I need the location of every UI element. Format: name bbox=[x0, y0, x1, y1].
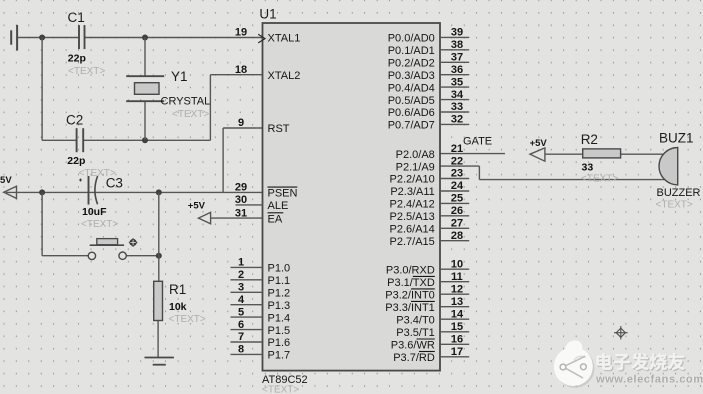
node bbox=[39, 35, 45, 41]
wire bbox=[42, 139, 76, 141]
svg-text:<TEXT>: <TEXT> bbox=[172, 109, 209, 120]
svg-text:P3.5/T1: P3.5/T1 bbox=[396, 327, 435, 339]
svg-text:39: 39 bbox=[451, 27, 463, 39]
svg-text:<TEXT>: <TEXT> bbox=[581, 174, 618, 185]
button toggle marker bbox=[129, 238, 137, 246]
wire bbox=[478, 166, 480, 180]
svg-text:R2: R2 bbox=[581, 132, 598, 147]
pin 12 P3.2/INT0 bbox=[385, 283, 469, 301]
node bbox=[156, 189, 162, 195]
pin 9 RST bbox=[238, 117, 290, 135]
pin 23 P2.2/A10 bbox=[390, 168, 470, 186]
svg-text:P0.6/AD6: P0.6/AD6 bbox=[388, 107, 435, 119]
pin 29 PSEN bbox=[235, 182, 298, 200]
wire pin22 bbox=[440, 165, 479, 167]
svg-text:P1.7: P1.7 bbox=[268, 350, 291, 362]
pin 18 XTAL2 bbox=[235, 64, 300, 82]
svg-text:P3.7/RD: P3.7/RD bbox=[393, 352, 435, 364]
wire bbox=[222, 128, 224, 192]
svg-text:C1: C1 bbox=[68, 10, 85, 25]
pin 28 P2.7/A15 bbox=[390, 230, 470, 248]
svg-text:6: 6 bbox=[238, 319, 244, 331]
wire bbox=[144, 101, 146, 140]
power +5V right bbox=[530, 148, 545, 161]
svg-text:P3.3/INT1: P3.3/INT1 bbox=[385, 302, 435, 314]
svg-text:11: 11 bbox=[451, 271, 463, 283]
pin 13 P3.3/INT1 bbox=[385, 296, 469, 314]
svg-text:+5V: +5V bbox=[188, 201, 206, 212]
wire bbox=[210, 74, 262, 76]
pin 27 P2.6/A14 bbox=[390, 218, 470, 236]
pin 38 P0.1/AD1 bbox=[388, 39, 469, 57]
svg-text:32: 32 bbox=[451, 114, 463, 126]
svg-text:P3.2/INT0: P3.2/INT0 bbox=[385, 289, 435, 301]
crystal Y1 bbox=[126, 76, 164, 101]
svg-text:12: 12 bbox=[451, 283, 463, 295]
svg-text:EA: EA bbox=[268, 213, 283, 225]
svg-text:P2.2/A10: P2.2/A10 bbox=[390, 174, 435, 186]
svg-text:10uF: 10uF bbox=[82, 206, 107, 218]
svg-text:P3.6/WR: P3.6/WR bbox=[391, 340, 435, 352]
svg-text:14: 14 bbox=[451, 308, 464, 320]
svg-text:15: 15 bbox=[451, 321, 463, 333]
svg-text:BUZZER: BUZZER bbox=[657, 187, 701, 199]
svg-text:<TEXT>: <TEXT> bbox=[169, 314, 206, 325]
node bbox=[142, 137, 148, 143]
pin 14 P3.4/T0 bbox=[396, 308, 469, 326]
wire bbox=[41, 192, 43, 255]
watermark text 电子发烧友 bbox=[598, 354, 686, 371]
svg-text:22p: 22p bbox=[67, 155, 85, 167]
pin 35 P0.4/AD4 bbox=[388, 76, 469, 94]
pin 25 P2.4/A12 bbox=[390, 193, 470, 211]
svg-text:22p: 22p bbox=[68, 53, 86, 65]
svg-text:23: 23 bbox=[451, 168, 463, 180]
svg-text:13: 13 bbox=[451, 296, 463, 308]
wire bbox=[126, 255, 159, 257]
svg-text:33: 33 bbox=[582, 162, 594, 174]
wire bbox=[223, 127, 262, 129]
pin 2 P1.1 bbox=[231, 269, 291, 287]
pin 36 P0.3/AD3 bbox=[388, 64, 469, 82]
pin 26 P2.5/A13 bbox=[390, 205, 470, 223]
svg-text:P0.7/AD7: P0.7/AD7 bbox=[388, 120, 435, 132]
svg-text:P1.5: P1.5 bbox=[268, 325, 291, 337]
svg-text:GATE: GATE bbox=[463, 136, 492, 148]
svg-text:33: 33 bbox=[451, 101, 463, 113]
svg-text:P0.4/AD4: P0.4/AD4 bbox=[388, 82, 435, 94]
svg-text:PSEN: PSEN bbox=[268, 188, 298, 200]
svg-text:<TEXT>: <TEXT> bbox=[656, 200, 693, 211]
pin 33 P0.6/AD6 bbox=[388, 101, 469, 119]
svg-text:7: 7 bbox=[238, 331, 244, 343]
wire bbox=[209, 75, 211, 141]
svg-text:P3.0/RXD: P3.0/RXD bbox=[386, 264, 435, 276]
svg-text:5: 5 bbox=[238, 306, 244, 318]
pin 10 P3.0/RXD bbox=[386, 258, 469, 276]
power +5V mid bbox=[199, 212, 211, 223]
resistor R1 bbox=[154, 281, 163, 320]
svg-text:P2.3/A11: P2.3/A11 bbox=[390, 186, 434, 198]
pin 1 P1.0 bbox=[231, 257, 291, 275]
svg-text:25: 25 bbox=[451, 193, 463, 205]
svg-text:P3.1/TXD: P3.1/TXD bbox=[387, 277, 435, 289]
svg-text:4: 4 bbox=[238, 294, 245, 306]
pin 8 P1.7 bbox=[231, 344, 291, 362]
svg-text:P0.5/AD5: P0.5/AD5 bbox=[388, 95, 435, 107]
pin 16 P3.6/WR bbox=[391, 334, 469, 352]
svg-text:P2.6/A14: P2.6/A14 bbox=[390, 224, 435, 236]
svg-text:35: 35 bbox=[451, 76, 463, 88]
svg-text:10k: 10k bbox=[169, 301, 187, 313]
pin 32 P0.7/AD7 bbox=[388, 114, 469, 132]
ground bbox=[145, 358, 174, 365]
svg-text:34: 34 bbox=[451, 89, 464, 101]
svg-text:RST: RST bbox=[268, 123, 290, 135]
pin 22 P2.1/A9 bbox=[396, 155, 463, 173]
svg-text:+5V: +5V bbox=[0, 175, 12, 186]
wire buzzer bottom bbox=[479, 179, 666, 181]
svg-text:1: 1 bbox=[238, 257, 244, 269]
svg-text:10: 10 bbox=[451, 258, 463, 270]
svg-text:19: 19 bbox=[235, 27, 247, 39]
wire bbox=[17, 37, 78, 39]
pin 11 P3.1/TXD bbox=[387, 271, 469, 289]
op IC U1 AT89C52 bbox=[263, 23, 441, 371]
svg-text:U1: U1 bbox=[259, 7, 276, 22]
pin 31 EA bbox=[235, 207, 283, 225]
svg-text:P2.0/A8: P2.0/A8 bbox=[396, 149, 435, 161]
pin 15 P3.5/T1 bbox=[396, 321, 469, 339]
svg-text:38: 38 bbox=[451, 39, 463, 51]
pin 4 P1.3 bbox=[231, 294, 291, 312]
pin 19 XTAL1 bbox=[235, 27, 300, 45]
ground bbox=[11, 25, 17, 51]
svg-text:P2.7/A15: P2.7/A15 bbox=[390, 236, 435, 248]
svg-text:21: 21 bbox=[451, 143, 463, 155]
svg-text:P1.6: P1.6 bbox=[268, 337, 291, 349]
svg-text:Y1: Y1 bbox=[171, 69, 188, 84]
capacitor C3 bbox=[79, 176, 98, 205]
pin 21 P2.0/A8 bbox=[396, 143, 463, 161]
svg-text:CRYSTAL: CRYSTAL bbox=[161, 96, 211, 108]
wire bbox=[144, 38, 146, 77]
svg-text:8: 8 bbox=[238, 344, 244, 356]
svg-text:P1.0: P1.0 bbox=[268, 263, 291, 275]
pin 3 P1.2 bbox=[231, 282, 291, 300]
pin 17 P3.7/RD bbox=[393, 346, 469, 364]
pin 5 P1.4 bbox=[231, 306, 291, 324]
svg-text:ALE: ALE bbox=[268, 200, 289, 212]
svg-text:26: 26 bbox=[451, 205, 463, 217]
svg-text:P2.1/A9: P2.1/A9 bbox=[396, 161, 435, 173]
svg-text:18: 18 bbox=[235, 64, 247, 76]
svg-text:37: 37 bbox=[451, 52, 463, 64]
svg-text:9: 9 bbox=[238, 117, 244, 129]
capacitor C2 bbox=[77, 128, 84, 152]
wire bbox=[158, 192, 160, 281]
svg-text:27: 27 bbox=[451, 218, 463, 230]
svg-text:P0.3/AD3: P0.3/AD3 bbox=[388, 70, 435, 82]
svg-text:R1: R1 bbox=[169, 282, 186, 297]
capacitor C1 bbox=[79, 25, 85, 49]
svg-text:P3.4/T0: P3.4/T0 bbox=[396, 314, 435, 326]
node bbox=[39, 189, 45, 195]
svg-text:P1.2: P1.2 bbox=[268, 288, 291, 300]
origin marker bbox=[614, 326, 628, 339]
node bbox=[142, 35, 148, 41]
svg-text:P0.1/AD1: P0.1/AD1 bbox=[388, 45, 435, 57]
svg-text:P1.1: P1.1 bbox=[268, 275, 291, 287]
power +5V left bbox=[4, 186, 17, 198]
svg-text:30: 30 bbox=[235, 194, 247, 206]
svg-text:BUZ1: BUZ1 bbox=[659, 131, 694, 146]
wire EA to +5V bbox=[211, 217, 263, 219]
clock chevron XTAL1 bbox=[258, 34, 265, 43]
svg-text:<TEXT>: <TEXT> bbox=[262, 385, 299, 394]
svg-text:+5V: +5V bbox=[530, 138, 548, 149]
svg-text:29: 29 bbox=[235, 182, 247, 194]
node bbox=[156, 253, 162, 259]
pin 7 P1.6 bbox=[231, 331, 291, 349]
wire R2 to buzzer bbox=[621, 153, 666, 155]
wire +5V rail bbox=[6, 191, 263, 193]
pin 30 ALE bbox=[235, 194, 288, 212]
svg-text:22: 22 bbox=[451, 155, 463, 167]
push button bbox=[88, 239, 126, 260]
svg-text:www.elecfans.com: www.elecfans.com bbox=[595, 374, 703, 386]
svg-text:24: 24 bbox=[451, 180, 464, 192]
svg-text:2: 2 bbox=[238, 269, 244, 281]
svg-text:XTAL1: XTAL1 bbox=[268, 33, 301, 45]
wire bbox=[84, 139, 210, 141]
pin 34 P0.5/AD5 bbox=[388, 89, 469, 107]
svg-text:C3: C3 bbox=[106, 176, 123, 191]
buzzer BUZ1 bbox=[659, 148, 678, 185]
svg-text:<TEXT>: <TEXT> bbox=[81, 219, 118, 230]
wire bbox=[42, 255, 88, 257]
wire R2 left bbox=[545, 153, 583, 155]
svg-text:3: 3 bbox=[238, 282, 244, 294]
wire GATE net bbox=[440, 153, 505, 155]
svg-text:XTAL2: XTAL2 bbox=[268, 70, 301, 82]
svg-text:P2.4/A12: P2.4/A12 bbox=[390, 199, 435, 211]
svg-text:<TEXT>: <TEXT> bbox=[68, 66, 105, 77]
pin 24 P2.3/A11 bbox=[390, 180, 469, 198]
pin 6 P1.5 bbox=[231, 319, 291, 337]
svg-text:P0.2/AD2: P0.2/AD2 bbox=[388, 58, 435, 70]
svg-text:C2: C2 bbox=[66, 113, 83, 128]
svg-text:28: 28 bbox=[451, 230, 463, 242]
svg-text:P1.4: P1.4 bbox=[268, 312, 291, 324]
svg-text:31: 31 bbox=[235, 207, 247, 219]
svg-text:P0.0/AD0: P0.0/AD0 bbox=[388, 33, 435, 45]
pin 39 P0.0/AD0 bbox=[388, 27, 469, 45]
svg-text:P2.5/A13: P2.5/A13 bbox=[390, 211, 435, 223]
svg-text:17: 17 bbox=[451, 346, 463, 358]
svg-text:16: 16 bbox=[451, 334, 463, 346]
svg-text:P1.3: P1.3 bbox=[268, 300, 291, 312]
resistor R2 bbox=[583, 149, 621, 158]
svg-text:36: 36 bbox=[451, 64, 463, 76]
watermark logo bbox=[554, 340, 595, 387]
wire bbox=[41, 38, 43, 141]
pin 37 P0.2/AD2 bbox=[388, 52, 469, 70]
wire bbox=[85, 37, 262, 39]
wire bbox=[157, 321, 159, 358]
